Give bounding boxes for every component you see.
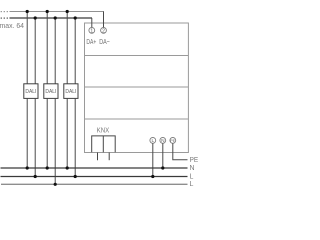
svg-text:N: N (190, 165, 195, 172)
svg-text:DALI: DALI (25, 89, 36, 95)
svg-text:PE: PE (170, 139, 175, 143)
svg-text:DALI: DALI (45, 89, 56, 95)
svg-text:DA−: DA− (99, 37, 110, 46)
svg-text:PE: PE (190, 157, 199, 164)
svg-text:1: 1 (90, 28, 93, 34)
svg-text:DA+: DA+ (86, 37, 96, 46)
svg-text:KNX: KNX (97, 125, 110, 134)
svg-text:max. 64: max. 64 (0, 21, 24, 30)
svg-text:2: 2 (102, 28, 105, 34)
svg-text:DALI: DALI (65, 89, 76, 95)
svg-text:L: L (190, 181, 194, 188)
svg-text:L: L (190, 173, 194, 180)
